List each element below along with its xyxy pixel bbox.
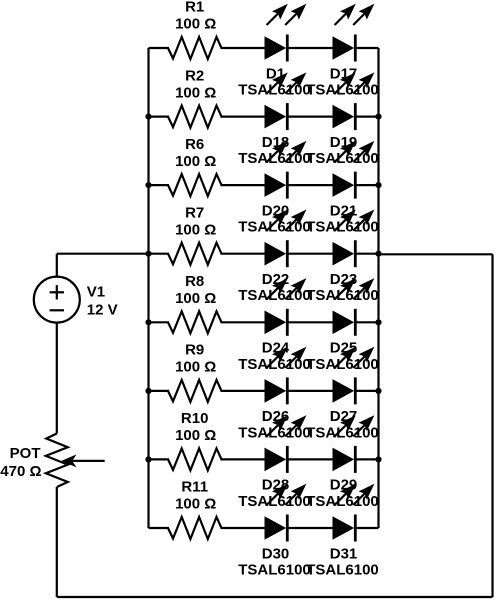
D18 label: D18 TSAL6100 (238, 134, 311, 167)
wire: D25 to right bus (355, 321, 378, 323)
svg-text:R9: R9 (185, 342, 204, 359)
svg-text:R6: R6 (185, 136, 204, 153)
LED D18 (265, 72, 307, 130)
resistor R7 (168, 243, 222, 265)
svg-text:R8: R8 (185, 273, 204, 290)
wire: R1 to D1 (221, 47, 266, 49)
svg-text:POT: POT (10, 445, 41, 462)
D27 label: D27 TSAL6100 (306, 408, 379, 441)
resistor R11 (168, 517, 222, 539)
resistor R10 (168, 448, 222, 470)
LED D26 (265, 347, 307, 405)
svg-text:100 Ω: 100 Ω (175, 427, 216, 444)
LED D20 (265, 141, 307, 199)
junction: right bus row 4 (375, 251, 381, 257)
LED D27 (333, 347, 375, 405)
resistor R1 (168, 37, 222, 59)
wire: D20 to D21 (287, 184, 333, 186)
wire: left bus to R10 (149, 458, 170, 460)
svg-text:TSAL6100: TSAL6100 (238, 562, 311, 579)
resistor R9 (168, 380, 222, 402)
V1 label: V1 12 V (87, 284, 118, 319)
junction: right bus row 7 (375, 456, 381, 462)
junction: right bus row 2 (375, 114, 381, 120)
D19 label: D19 TSAL6100 (306, 134, 379, 167)
LED D19 (333, 72, 375, 130)
wire: D18 to D19 (287, 115, 333, 117)
resistor R8 (168, 311, 222, 333)
junction: left bus row 7 (145, 456, 151, 462)
wire: R11 to D30 (221, 527, 266, 529)
junction: left bus row 5 (145, 319, 151, 325)
svg-text:470 Ω: 470 Ω (0, 463, 41, 480)
R1 label: R1 100 &#937; (175, 0, 216, 33)
D23 label: D23 TSAL6100 (306, 271, 379, 304)
wire: V1 minus to POT (56, 323, 58, 434)
svg-text:R7: R7 (185, 204, 204, 221)
R7 label: R7 100 &#937; (175, 204, 216, 238)
POT label: POT 470 &#937; (0, 445, 41, 480)
wire: R7 to D22 (221, 253, 266, 255)
wire: left bus to R11 (149, 527, 170, 529)
svg-text:R1: R1 (185, 0, 204, 16)
wire: D21 to right bus (355, 184, 378, 186)
D29 label: D29 TSAL6100 (306, 477, 379, 510)
wire: V1 plus up to row4 (56, 254, 58, 277)
wire: right bus (node to POT return) (377, 48, 379, 528)
LED D25 (333, 278, 375, 336)
wire: D26 to D27 (287, 390, 333, 392)
wire: D29 to right bus (355, 458, 378, 460)
svg-text:100 Ω: 100 Ω (175, 496, 216, 513)
svg-text:12 V: 12 V (87, 301, 118, 318)
D20 label: D20 TSAL6100 (238, 202, 311, 235)
wire: D19 to right bus (355, 115, 378, 117)
svg-text:R2: R2 (185, 67, 204, 84)
wire: R2 to D18 (221, 115, 266, 117)
LED D31 (333, 484, 375, 542)
resistor R6 (168, 174, 222, 196)
wire: V1 to left bus (57, 253, 149, 255)
LED D22 (265, 210, 307, 268)
junction: left bus row 3 (145, 182, 151, 188)
R9 label: R9 100 &#937; (175, 342, 216, 376)
D22 label: D22 TSAL6100 (238, 271, 311, 304)
voltage source V1 (34, 277, 80, 323)
svg-text:100 Ω: 100 Ω (175, 290, 216, 307)
wire: R9 to D26 (221, 390, 266, 392)
svg-text:100 Ω: 100 Ω (175, 153, 216, 170)
LED D21 (333, 141, 375, 199)
D28 label: D28 TSAL6100 (238, 477, 311, 510)
wire: left bus to R7 (149, 253, 170, 255)
wire: D22 to D23 (287, 253, 333, 255)
svg-text:100 Ω: 100 Ω (175, 84, 216, 101)
LED D24 (265, 278, 307, 336)
potentiometer POT 470 &#937; (46, 434, 105, 488)
D25 label: D25 TSAL6100 (306, 340, 379, 373)
wire: left bus to R8 (149, 321, 170, 323)
wire: R6 to D20 (221, 184, 266, 186)
D1 label: D1 TSAL6100 (238, 65, 311, 98)
R6 label: R6 100 &#937; (175, 136, 216, 170)
wire: right return (491, 254, 493, 597)
wire: left bus (node after V1+) (147, 48, 149, 528)
wire: POT to bottom rail (56, 487, 58, 597)
LED D23 (333, 210, 375, 268)
wire: left bus to R6 (149, 184, 170, 186)
LED D28 (265, 415, 307, 473)
junction: left bus row 2 (145, 114, 151, 120)
wire: D1 to D17 (287, 47, 333, 49)
D24 label: D24 TSAL6100 (238, 340, 311, 373)
LED D30 (265, 484, 307, 542)
LED D1 (265, 4, 307, 62)
junction: left bus row 4 (145, 251, 151, 257)
D21 label: D21 TSAL6100 (306, 202, 379, 235)
R10 label: R10 100 &#937; (175, 410, 216, 444)
svg-text:D31: D31 (330, 545, 358, 562)
junction: right bus row 6 (375, 388, 381, 394)
LED D29 (333, 415, 375, 473)
R2 label: R2 100 &#937; (175, 67, 216, 101)
wire: D28 to D29 (287, 458, 333, 460)
svg-text:V1: V1 (87, 284, 105, 301)
wire: D24 to D25 (287, 321, 333, 323)
svg-text:D30: D30 (262, 545, 290, 562)
wire: D23 to right bus (355, 253, 378, 255)
svg-text:100 Ω: 100 Ω (175, 16, 216, 33)
wire: bottom rail (57, 596, 493, 598)
wire: D30 to D31 (287, 527, 333, 529)
D17 label: D17 TSAL6100 (306, 65, 379, 98)
D26 label: D26 TSAL6100 (238, 408, 311, 441)
svg-text:TSAL6100: TSAL6100 (306, 562, 379, 579)
wire: return to right bus (379, 253, 493, 255)
wire: D17 to right bus (355, 47, 378, 49)
svg-text:R10: R10 (181, 410, 209, 427)
wire: R8 to D24 (221, 321, 266, 323)
svg-text:100 Ω: 100 Ω (175, 359, 216, 376)
R8 label: R8 100 &#937; (175, 273, 216, 307)
resistor R2 (168, 106, 222, 128)
junction: left bus row 6 (145, 388, 151, 394)
LED D17 (333, 4, 375, 62)
junction: right bus row 3 (375, 182, 381, 188)
wire: D27 to right bus (355, 390, 378, 392)
wire: left bus to R2 (149, 115, 170, 117)
svg-text:100 Ω: 100 Ω (175, 221, 216, 238)
D31 label: D31 TSAL6100 (306, 545, 379, 578)
wire: D31 to right bus (355, 527, 378, 529)
svg-text:R11: R11 (181, 479, 208, 496)
wire: left bus to R1 (149, 47, 170, 49)
R11 label: R11 100 &#937; (175, 479, 216, 513)
junction: right bus row 5 (375, 319, 381, 325)
wire: R10 to D28 (221, 458, 266, 460)
wire: left bus to R9 (149, 390, 170, 392)
D30 label: D30 TSAL6100 (238, 545, 311, 578)
